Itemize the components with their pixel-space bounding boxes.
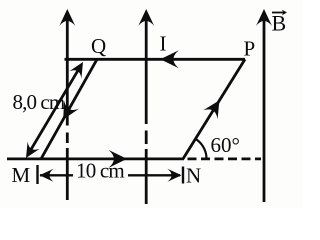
wire: side NP of loop <box>183 59 245 159</box>
svg-text:Q: Q <box>91 34 106 58</box>
tick at N for 10 cm dimension <box>182 167 184 184</box>
wire: top edge through Q and P <box>65 58 246 61</box>
wire: dashed horizontal extension beyond N <box>188 157 262 160</box>
current arrow on side MQ (points down-left toward M) <box>63 101 79 120</box>
current arrow on side NP (points up-right toward P) <box>203 100 219 119</box>
dimension line 8,0 cm (double-headed, parallel to MQ) <box>26 62 83 158</box>
dimension arrow right (points right at N tick) <box>128 169 182 182</box>
svg-text:P: P <box>244 37 256 61</box>
wire: bottom rail through M and N <box>7 157 184 160</box>
svg-text:I: I <box>160 32 167 56</box>
svg-text:60°: 60° <box>211 133 240 157</box>
field line right (vertical, arrow up, labelled B) <box>256 9 272 202</box>
svg-text:B: B <box>272 11 287 36</box>
svg-text:N: N <box>186 164 201 188</box>
field line middle (vertical, arrow up) <box>138 9 154 204</box>
wire: side MQ of loop <box>41 59 97 159</box>
svg-text:10 cm: 10 cm <box>76 159 124 183</box>
tick at M for 10 cm dimension <box>36 165 38 184</box>
label vector B <box>272 10 288 36</box>
svg-text:M: M <box>12 163 31 187</box>
angle arc 60 degrees at N <box>196 139 207 158</box>
current arrow on top edge (points left), label I <box>160 50 179 68</box>
dimension arrow left (points left at M tick) <box>40 169 74 182</box>
field line left (vertical, arrow up) <box>59 9 75 200</box>
svg-text:8,0 cm: 8,0 cm <box>13 90 65 114</box>
current arrow on bottom rail (points right) <box>109 150 128 168</box>
